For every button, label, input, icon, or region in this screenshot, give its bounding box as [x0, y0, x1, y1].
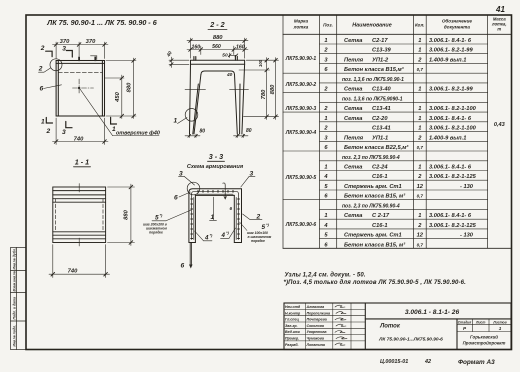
- spec table header text: [293, 17, 507, 32]
- view 3-3 callout 6 left: [174, 195, 178, 202]
- title block main designation: [378, 309, 507, 346]
- svg-text:5: 5: [324, 184, 328, 190]
- spec table body rows: [323, 38, 476, 248]
- svg-text:- 130: - 130: [460, 233, 474, 239]
- svg-text:3: 3: [324, 135, 328, 141]
- view 3-3 caption: [209, 152, 223, 161]
- svg-text:0,7: 0,7: [417, 145, 424, 150]
- svg-text:370: 370: [60, 39, 70, 45]
- view 3-3 callout 1: [211, 214, 215, 221]
- svg-text:Подп. и дата: Подп. и дата: [13, 297, 17, 320]
- svg-text:3.006.1- 8.2-1-125: 3.006.1- 8.2-1-125: [429, 174, 477, 180]
- svg-text:Зав.гр.: Зав.гр.: [285, 324, 298, 328]
- svg-text:Петля: Петля: [344, 57, 364, 63]
- svg-text:С 2-17: С 2-17: [372, 213, 390, 219]
- left attachment strip: [11, 248, 27, 350]
- svg-text:С13-41: С13-41: [372, 126, 391, 132]
- plan dimension 450 880: [105, 58, 137, 119]
- svg-text:0,7: 0,7: [417, 194, 424, 199]
- view 2-2 node detail circle 1: [185, 109, 198, 122]
- svg-text:3: 3: [62, 129, 66, 136]
- svg-text:поз. 2,3 по ЛК75.90.90-4: поз. 2,3 по ЛК75.90.90-4: [342, 203, 400, 209]
- plan view caption: [46, 18, 157, 27]
- view 1-1 centerline ticks: [78, 184, 80, 247]
- svg-text:12: 12: [417, 233, 424, 239]
- svg-text:Р: Р: [463, 326, 467, 331]
- view 2-2 lifting loops: [194, 56, 237, 60]
- svg-text:100: 100: [258, 59, 263, 67]
- svg-text:*): *): [226, 230, 230, 235]
- svg-text:Разраб.: Разраб.: [285, 343, 299, 347]
- svg-text:Чумакова: Чумакова: [307, 337, 324, 341]
- title block signature squiggles: [335, 305, 347, 345]
- svg-text:2: 2: [40, 45, 45, 52]
- svg-text:Гл.спец: Гл.спец: [285, 318, 299, 322]
- svg-text:ЛК 75. 90.90-1 ... ЛК 75. 90.: ЛК 75. 90.90-1 ... ЛК 75. 90.90 - 6: [46, 18, 157, 27]
- svg-text:Лопатина: Лопатина: [306, 343, 325, 347]
- svg-text:40: 40: [226, 72, 233, 78]
- svg-text:С16-1: С16-1: [372, 174, 388, 180]
- svg-text:880: 880: [270, 84, 276, 94]
- svg-text:Стадия: Стадия: [458, 320, 472, 324]
- svg-text:лотка: лотка: [293, 25, 309, 30]
- svg-text:1: 1: [499, 326, 502, 331]
- svg-text:ЛК75.90.90-4: ЛК75.90.90-4: [285, 130, 317, 136]
- svg-text:Марка: Марка: [294, 19, 309, 24]
- view 2-2 dim 880 top: [187, 38, 248, 58]
- svg-text:3.006.1- 8.4-1- 6: 3.006.1- 8.4-1- 6: [429, 165, 472, 171]
- svg-text:- 130: - 130: [460, 184, 474, 190]
- title block signature rows: [284, 303, 365, 350]
- svg-text:ЛК75.90.90-2: ЛК75.90.90-2: [285, 82, 317, 88]
- svg-text:*)Поз. 4,5 только для лотко: *)Поз. 4,5 только для лотков ЛК 75.90.90…: [284, 280, 467, 286]
- svg-text:Сетка: Сетка: [344, 38, 362, 44]
- svg-text:Перепелкина: Перепелкина: [307, 311, 330, 315]
- spec table row lines: [283, 44, 488, 239]
- svg-text:3.006.1- 8.2-1-99: 3.006.1- 8.2-1-99: [429, 48, 473, 54]
- view 1-1 outline: [53, 187, 106, 243]
- view 3-3 concrete outline: [189, 189, 242, 243]
- svg-text:2 - 2: 2 - 2: [209, 20, 224, 29]
- svg-text:Почтарева: Почтарева: [307, 318, 327, 322]
- page number 41: [495, 5, 505, 14]
- view 2-2 slab: [191, 60, 245, 64]
- svg-text:Алмазова: Алмазова: [306, 305, 325, 309]
- svg-text:2: 2: [46, 128, 51, 135]
- view 3-3 inner mesh line: [194, 198, 236, 240]
- svg-text:3 - 3: 3 - 3: [209, 152, 223, 161]
- svg-text:0,7: 0,7: [417, 67, 424, 72]
- svg-text:порядке: порядке: [251, 239, 265, 243]
- svg-text:2: 2: [323, 48, 328, 54]
- svg-text:3.006.1- 8.4-1- 6: 3.006.1- 8.4-1- 6: [429, 116, 472, 122]
- view 2-2 left small dim 40: [169, 57, 189, 68]
- svg-text:Бетон класса В15,м³: Бетон класса В15,м³: [344, 66, 405, 73]
- svg-text:Стержень арм. Ст1: Стержень арм. Ст1: [344, 233, 402, 239]
- svg-text:Нач.отд: Нач.отд: [285, 305, 301, 309]
- plan hole centerlines: [73, 79, 94, 94]
- svg-text:780: 780: [261, 89, 267, 99]
- svg-text:Уваретова: Уваретова: [307, 330, 327, 334]
- plan hidden edge dashed: [58, 71, 102, 73]
- svg-text:1.400-9 вып.1: 1.400-9 вып.1: [429, 135, 466, 141]
- svg-text:2: 2: [323, 126, 328, 132]
- view 2-2 leg centerline ticks: [185, 88, 249, 90]
- svg-text:1: 1: [418, 116, 421, 122]
- svg-text:Бетон класса В15, м³: Бетон класса В15, м³: [344, 193, 406, 200]
- svg-text:С13-40: С13-40: [372, 87, 391, 93]
- svg-text:ЛК75.90.90-3: ЛК75.90.90-3: [285, 106, 317, 112]
- svg-text:С2-20: С2-20: [372, 116, 388, 122]
- view 2-2 bottom dim 80 left: [185, 134, 200, 138]
- view 1-1 dimension 880: [108, 184, 135, 246]
- view 2-2 dim 50: [228, 53, 238, 58]
- svg-text:поз. 2,3 по ЛК75.90.90-4: поз. 2,3 по ЛК75.90.90-4: [342, 155, 400, 161]
- view 2-2 right dims 780 880 100: [239, 58, 279, 120]
- view 2-2 caption: [209, 20, 224, 29]
- view 3-3 small 6 right: [230, 206, 233, 211]
- svg-text:1: 1: [112, 126, 116, 133]
- svg-text:поз. 1,3,6 по ЛК75.90.90-1: поз. 1,3,6 по ЛК75.90.90-1: [342, 77, 404, 83]
- svg-text:1: 1: [41, 119, 45, 126]
- section mark 1 bottom-right: [111, 117, 117, 124]
- plan lifting loops: [78, 57, 96, 62]
- section mark 3 top: [66, 51, 72, 58]
- title block signature texts: [285, 305, 330, 347]
- svg-text:880: 880: [127, 82, 133, 92]
- svg-text:740: 740: [68, 269, 78, 275]
- view 1-1 hidden dashed sides: [55, 199, 103, 232]
- svg-text:Сетка: Сетка: [344, 213, 362, 219]
- svg-text:Сетка: Сетка: [344, 106, 362, 112]
- view 3-3 callout 3 left: [179, 171, 183, 178]
- svg-text:4: 4: [323, 223, 328, 229]
- spec table mass value: [494, 122, 506, 128]
- svg-text:3.006.1- 8.4-1- 6: 3.006.1- 8.4-1- 6: [429, 38, 472, 44]
- svg-text:80: 80: [246, 128, 252, 134]
- svg-text:отверстие ф40: отверстие ф40: [116, 129, 160, 136]
- view 3-3 callout 2 right: [256, 214, 261, 221]
- svg-text:ЛК 75.90.90-1...ЛК75.90.90-6: ЛК 75.90.90-1...ЛК75.90.90-6: [378, 337, 443, 343]
- svg-text:ЛК75.90.90-5: ЛК75.90.90-5: [285, 175, 317, 181]
- svg-text:880: 880: [123, 209, 129, 219]
- svg-text:2: 2: [417, 223, 422, 229]
- svg-text:1: 1: [418, 126, 421, 132]
- section mark 1 bottom-left: [46, 118, 52, 124]
- svg-text:1 - 1: 1 - 1: [75, 158, 89, 167]
- svg-text:Листов: Листов: [492, 320, 506, 324]
- svg-text:С13-39: С13-39: [372, 48, 391, 54]
- svg-text:Инв.№ дубл.: Инв.№ дубл.: [13, 248, 17, 269]
- svg-text:порядке: порядке: [149, 231, 163, 235]
- svg-text:Лист: Лист: [475, 320, 485, 324]
- svg-text:1: 1: [211, 214, 215, 221]
- svg-text:560: 560: [212, 44, 221, 50]
- view 2-2 bottom dim 80 right: [234, 134, 249, 138]
- svg-text:Наименование: Наименование: [352, 23, 391, 29]
- plan leader hole note: [80, 89, 159, 136]
- svg-text:1: 1: [324, 116, 327, 122]
- svg-text:2: 2: [417, 174, 422, 180]
- svg-text:1: 1: [418, 48, 421, 54]
- section mark 2 top: [46, 51, 52, 56]
- svg-text:2: 2: [38, 66, 43, 73]
- svg-text:УП1-1: УП1-1: [372, 135, 388, 141]
- svg-text:2: 2: [323, 87, 328, 93]
- svg-text:3: 3: [62, 45, 66, 52]
- svg-text:5: 5: [155, 215, 159, 222]
- svg-text:40: 40: [165, 50, 174, 59]
- svg-text:370: 370: [86, 39, 96, 45]
- svg-text:1: 1: [174, 118, 178, 125]
- svg-text:6: 6: [230, 206, 233, 211]
- plan dimension 370 370: [53, 42, 109, 59]
- svg-text:4: 4: [221, 232, 226, 239]
- svg-text:5: 5: [262, 224, 266, 231]
- view 3-3 slab second inner line: [197, 193, 233, 195]
- svg-text:1: 1: [418, 38, 421, 44]
- view 3-3 node detail circle 3: [187, 182, 200, 195]
- plan node detail circle 2: [50, 59, 62, 71]
- svg-text:Лоток: Лоток: [379, 324, 401, 330]
- view 1-1 dimension 740: [49, 245, 110, 278]
- svg-text:6: 6: [324, 145, 328, 151]
- svg-text:С16-1: С16-1: [372, 223, 388, 229]
- svg-text:80: 80: [200, 129, 206, 135]
- svg-text:Бетон класса В15, м³: Бетон класса В15, м³: [344, 241, 406, 248]
- svg-text:Схема армирования: Схема армирования: [187, 164, 244, 170]
- svg-text:*): *): [160, 213, 164, 218]
- view 2-2 fillet label 40: [226, 72, 233, 78]
- view 3-3 callout 3 right: [250, 171, 254, 178]
- plan dimension 740: [53, 118, 109, 145]
- svg-text:Промстройпроект: Промстройпроект: [463, 341, 506, 346]
- svg-text:4: 4: [204, 235, 209, 242]
- svg-text:6: 6: [324, 242, 328, 248]
- svg-text:Узлы 1,2,4 см. докум. - 50.: Узлы 1,2,4 см. докум. - 50.: [285, 273, 366, 279]
- view 3-3 outer mesh line: [192, 191, 239, 239]
- svg-text:1: 1: [324, 213, 327, 219]
- svg-text:С2-24: С2-24: [372, 165, 388, 171]
- svg-text:Петля: Петля: [344, 135, 364, 141]
- svg-text:5: 5: [324, 233, 328, 239]
- svg-text:12: 12: [417, 184, 424, 190]
- svg-text:документа: документа: [444, 25, 470, 30]
- svg-text:Горьковский: Горьковский: [470, 335, 498, 340]
- svg-text:Бетон класса В22,5,м³: Бетон класса В22,5,м³: [344, 144, 409, 151]
- svg-text:42: 42: [424, 359, 431, 365]
- svg-text:1: 1: [418, 213, 421, 219]
- plan position 6 label: [40, 86, 44, 93]
- view 3-3 top loop: [223, 183, 227, 199]
- svg-text:Ц.00015-01: Ц.00015-01: [380, 359, 408, 365]
- svg-text:Соколова: Соколова: [307, 324, 324, 328]
- svg-text:Взам.инв.№: Взам.инв.№: [13, 271, 17, 292]
- svg-text:Сетка: Сетка: [344, 87, 362, 93]
- view 3-3 callout 5 right: [247, 222, 272, 243]
- svg-text:Сетка: Сетка: [344, 116, 362, 122]
- svg-text:поз. 1,3,6 по ЛК75,9090-1: поз. 1,3,6 по ЛК75,9090-1: [342, 96, 403, 102]
- view 3-3 mesh tick dots: [191, 190, 240, 238]
- svg-text:1: 1: [418, 87, 421, 93]
- svg-text:Стержень арм. Ст1: Стержень арм. Ст1: [344, 184, 402, 190]
- svg-text:880: 880: [213, 35, 223, 41]
- svg-text:6: 6: [174, 195, 178, 202]
- view 2-2 right leg: [235, 64, 245, 134]
- view 2-2 left leg: [190, 64, 201, 134]
- view 3-3 callout 5 left: [143, 213, 167, 235]
- svg-text:Обозначение: Обозначение: [442, 18, 473, 24]
- svg-text:Вед.инж: Вед.инж: [285, 330, 300, 334]
- svg-text:Инв.№ подл.: Инв.№ подл.: [13, 325, 17, 347]
- svg-text:С13-41: С13-41: [372, 106, 391, 112]
- spec table grid: [283, 15, 511, 248]
- svg-text:50: 50: [222, 53, 228, 59]
- svg-text:6: 6: [181, 263, 185, 270]
- view 2-2 dim 160 560 160: [187, 46, 248, 55]
- footer texts: [380, 359, 495, 366]
- view 2-2 inner ceiling with fillets: [201, 71, 235, 75]
- svg-text:450: 450: [115, 91, 121, 102]
- svg-text:2: 2: [417, 57, 422, 63]
- svg-text:УП1-2: УП1-2: [372, 57, 389, 63]
- svg-text:Провер.: Провер.: [285, 337, 299, 341]
- svg-text:*): *): [210, 233, 214, 238]
- view 3-3 bottom rebar pos6: [190, 243, 191, 266]
- svg-text:т: т: [497, 27, 501, 32]
- svg-text:Поз.: Поз.: [323, 23, 333, 28]
- svg-text:2: 2: [323, 106, 328, 112]
- svg-text:740: 740: [74, 136, 84, 142]
- svg-text:0,7: 0,7: [417, 242, 424, 247]
- spec table mark column: [285, 56, 317, 228]
- svg-text:Кол.: Кол.: [415, 23, 425, 28]
- svg-text:1: 1: [418, 106, 421, 112]
- view 3-3 callouts 4: [204, 230, 230, 242]
- svg-text:С2-17: С2-17: [372, 38, 388, 44]
- notes: [284, 273, 467, 287]
- section mark 2 bottom: [46, 128, 51, 135]
- svg-text:6: 6: [324, 67, 328, 73]
- svg-text:6: 6: [324, 194, 328, 200]
- plan hole point: [78, 87, 80, 89]
- svg-text:1: 1: [324, 38, 327, 44]
- svg-text:*): *): [266, 222, 270, 227]
- svg-text:1: 1: [418, 165, 421, 171]
- svg-text:3.006.1- 8.2-1-125: 3.006.1- 8.2-1-125: [429, 223, 477, 229]
- svg-text:Формат А3: Формат А3: [458, 359, 495, 366]
- svg-text:3: 3: [324, 57, 328, 63]
- svg-text:Н.контр: Н.контр: [285, 311, 301, 315]
- view 1-1 caption: [75, 158, 89, 167]
- svg-text:2: 2: [417, 135, 422, 141]
- svg-text:160: 160: [236, 45, 245, 51]
- svg-text:160: 160: [191, 44, 200, 50]
- strip rotated labels: [13, 248, 17, 346]
- svg-text:3.006.1 - 8.1-1- 26: 3.006.1 - 8.1-1- 26: [405, 309, 460, 316]
- title block outline: [284, 303, 511, 350]
- svg-text:3.006.1- 8.2-1-99: 3.006.1- 8.2-1-99: [429, 87, 473, 93]
- svg-text:Сетка: Сетка: [344, 165, 362, 171]
- svg-text:3.006.1- 8.4-1- 6: 3.006.1- 8.4-1- 6: [429, 213, 472, 219]
- svg-text:3.006.1- 8.2-1-100: 3.006.1- 8.2-1-100: [429, 106, 477, 112]
- svg-text:6: 6: [40, 86, 44, 93]
- svg-text:ЛК75.90.90-1: ЛК75.90.90-1: [285, 56, 317, 62]
- svg-text:4: 4: [323, 174, 328, 180]
- plan view outline: [56, 61, 104, 117]
- section mark 3 bottom: [66, 122, 72, 128]
- svg-text:1: 1: [324, 165, 327, 171]
- plan loop tick dim: [91, 56, 97, 60]
- svg-text:3.006.1- 8.2-1-100: 3.006.1- 8.2-1-100: [429, 126, 477, 132]
- svg-text:1.400-9 вып.1: 1.400-9 вып.1: [429, 57, 466, 63]
- svg-text:41: 41: [495, 5, 505, 14]
- svg-text:ЛК75.90.90-6: ЛК75.90.90-6: [285, 222, 317, 228]
- svg-text:0,43: 0,43: [494, 122, 506, 128]
